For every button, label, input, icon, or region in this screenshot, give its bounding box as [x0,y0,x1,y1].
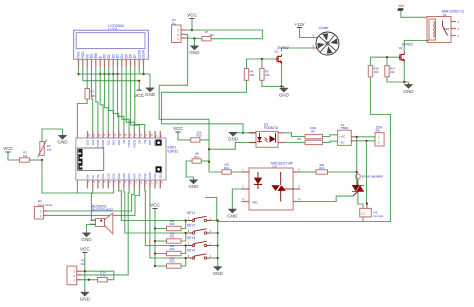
wire ESP32 to KEY3 [145,189,194,246]
wire U3 pin2 to ground [232,189,241,209]
junction triac MT2 [356,171,358,173]
wire LCD pin drop [143,67,145,75]
svg-text:Q1: Q1 [275,50,279,54]
svg-text:3: 3 [93,181,96,183]
svg-text:22k: 22k [390,70,395,74]
wire Q2 source [403,62,405,82]
svg-text:14: 14 [150,181,153,184]
svg-text:+ AC: + AC [339,135,345,139]
ESP32 bottom pin SD2 [159,180,161,189]
wire resistor to key node [181,246,186,254]
wire key to ground rail [211,220,218,222]
ESP32 mounting pad bottom [156,166,162,172]
ESP32 bottom pin D25 [123,180,125,189]
svg-text:2: 2 [88,181,91,183]
svg-text:4: 4 [298,197,300,201]
wire R16 top [370,57,372,65]
LCD pin 10 D3 [117,59,119,66]
resistor R16 100 [368,66,372,77]
wire LCD E to ESP32 [100,74,103,131]
wire route to ESP32 area [205,198,217,222]
wire LCD pin drop [138,67,140,75]
push button KEY1 [187,211,212,222]
opto-triac U3 MOC3021TVM body [249,168,293,210]
resistor R5 22k [260,69,264,81]
H2 pin 1 [43,214,47,216]
ESP32 bottom pin D13 [154,180,156,189]
svg-text:10: 10 [130,181,133,184]
svg-text:R10: R10 [196,134,202,138]
junction Q1 source [280,85,282,87]
wire opto pin1 to ground [233,132,257,134]
ESP32 top pin D4 [139,131,141,138]
resistor R12 220 [222,170,231,174]
svg-text:D27: D27 [132,173,136,179]
wire R11 to bus [201,160,209,162]
resistor R17 22k [385,66,389,77]
wire LCD pin drop [108,67,110,75]
svg-text:5: 5 [104,181,107,183]
ESP32 top pin TXD2 [128,131,130,138]
svg-text:GND: GND [80,297,91,302]
ESP32 top pin D5 [123,131,125,138]
svg-text:1: 1 [210,241,212,245]
svg-text:10k: 10k [209,33,214,37]
ground bottom [80,292,91,301]
svg-text:2: 2 [312,44,314,48]
ESP32 bottom pin D32 [113,180,115,189]
ESP32 bottom pin D14 [139,180,141,189]
ESP32 top pin D19 [113,131,115,138]
svg-text:Q2: Q2 [399,46,403,50]
junction key node [185,257,187,259]
wire P4 data to divider bus [159,34,209,119]
wire R10 to bus [200,139,209,141]
svg-text:1 2: 1 2 [361,212,365,216]
push button KEY4 [187,249,212,260]
fan pin 1 [312,37,318,39]
junction P2 VCC [84,270,86,272]
wire thermistor to ESP32 VP [42,160,114,193]
svg-text:TB6D: TB6D [341,126,350,130]
svg-text:100: 100 [250,73,255,77]
wire R9 to bridge [323,141,338,142]
wire resistor to key node [181,258,186,266]
svg-text:10k: 10k [47,148,52,152]
wire to ground P4 [194,38,196,46]
resistor R13 300 [316,170,328,174]
resistor R21 10k [167,239,182,243]
junction lower [208,161,210,163]
wire P2 pin1 [82,279,98,281]
svg-text:8: 8 [161,135,164,137]
wire VCC to key resistor 2 [155,240,167,242]
ESP32 bottom pin EN [87,180,89,189]
push button KEY2 [187,224,212,235]
ESP32 top pin RXD0 [102,131,104,138]
wire U2 pin4 to R8 [285,133,305,137]
wire drive net long route [217,77,391,222]
junction P2 data [88,279,90,281]
wire 12v to relay coil [401,11,427,17]
VCC flag under LCD [134,89,144,99]
svg-text:KEY3: KEY3 [187,236,195,240]
junction ground rail [217,232,219,234]
ESP32 top pin D23 [87,131,89,138]
svg-text:GND: GND [145,92,156,97]
junction P4 gnd [193,37,195,39]
svg-text:2N7002: 2N7002 [278,46,289,50]
wire LCD pin drop [82,67,84,75]
D1 pin + [351,136,356,138]
wire key to ground rail [211,245,218,247]
wire pullup loop P4 [192,30,263,39]
junction triac feed [356,136,358,138]
svg-text:21: 21 [93,133,96,136]
wire LCD D6 to ESP32 [131,74,140,131]
svg-text:D35: D35 [106,173,110,179]
wire to H3 top [366,141,368,204]
svg-text:15: 15 [124,133,127,136]
ESP32 mounting pad top [156,140,162,146]
wire R13 to triac [328,171,357,173]
wire LCD D0 to ESP32 [105,74,109,131]
svg-text:D14: D14 [138,173,142,179]
ground keys [213,267,224,276]
U3 pin 6 [293,171,300,173]
ground fan driver [279,88,290,97]
wire buzzer to ground [87,224,96,233]
wire LCD pin drop [117,67,119,75]
wire VCC to R10 [178,132,191,140]
svg-text:D34: D34 [101,173,105,179]
junction on LCD bus [77,73,79,75]
svg-text:GND: GND [153,140,157,146]
wire ESP32 to KEY4 [150,189,193,259]
junction on LCD bus [108,73,110,75]
svg-text:15: 15 [156,181,159,184]
ESP32 top pin GND [154,131,156,138]
junction key node [185,219,187,221]
wire R4 top [246,59,248,69]
LCD pin 16 LEDK [143,59,145,66]
svg-text:17: 17 [114,133,117,136]
connector P2 [67,266,77,285]
junction P4 VCC [191,29,193,31]
P4 pin 3 [181,29,186,31]
wire U3 pin6 to R13 [301,171,317,173]
wire bridge to P3 pin1 [356,136,375,138]
svg-text:R23: R23 [169,260,175,264]
U2 pin 3 [278,142,285,144]
svg-text:D23: D23 [86,139,90,145]
LCD pin 1 VSS [78,59,80,66]
wire P4 pin3 [186,29,192,31]
wire R17 top [386,57,388,65]
wire R5 to ground rail [262,80,284,86]
ESP32 top pin D22 [92,131,94,138]
junction key node [185,232,187,234]
svg-text:18: 18 [109,133,112,136]
U3 pin 5 [293,188,300,190]
wire LCD bus row 1 [77,73,150,75]
wire VCC rail keys [154,209,156,267]
svg-text:D12: D12 [143,173,147,179]
wire to GND flag [149,74,151,88]
ESP32 bottom pin D26 [128,180,130,189]
transistor Q2 2N7002 [399,52,405,62]
svg-text:2: 2 [242,185,244,189]
svg-text:D4: D4 [120,54,124,58]
svg-text:16: 16 [119,133,122,136]
resistor R8 100k [305,134,322,138]
wire ground stub [283,86,285,88]
wire key to ground rail [211,257,218,259]
svg-text:GND: GND [228,137,239,142]
svg-text:D21: D21 [106,139,110,145]
svg-text:2: 2 [188,216,190,220]
VCC flag above P4 [187,13,197,19]
svg-text:- AC: - AC [339,140,344,144]
junction Q2 source [403,81,405,83]
svg-text:+12V: +12V [295,22,305,27]
svg-text:11: 11 [135,181,138,184]
resistor R3 100 [85,89,89,100]
svg-text:16: 16 [161,181,164,184]
svg-text:VCC: VCC [3,146,13,151]
wire LCD pin drop [78,67,80,75]
junction load feed [365,140,367,142]
svg-text:1: 1 [242,168,244,172]
svg-text:VIN: VIN [158,140,162,145]
wire to VCC flag [138,81,140,89]
LCD pin 9 D2 [112,59,114,66]
ground U3 [227,209,238,218]
junction on LCD bus [142,73,144,75]
svg-text:GND: GND [279,93,290,98]
svg-text:3: 3 [242,197,244,201]
wire LCD RS to ESP32 [92,74,93,131]
ESP32 top pin D2 [144,131,146,138]
svg-text:GND: GND [188,184,199,189]
wire key to ground rail [211,232,218,234]
resistor R10 10k [191,138,200,142]
wire VCC to R1 [8,152,20,160]
svg-text:D4: D4 [138,139,142,143]
ESP32 bottom pin D27 [133,180,135,189]
ground under P4 [189,46,200,55]
wire R2 top to ground [42,129,63,142]
LCD pin 5 RW [95,59,97,66]
svg-text:KEY4: KEY4 [187,249,195,253]
junction VCC rail [154,240,156,242]
svg-text:D26: D26 [127,173,131,179]
wire R17 to ground rail [387,77,409,82]
wire to triac MT2 [356,137,358,185]
wire fan to Q1 drain [282,48,312,52]
wire to opto U2 pin2 [209,143,256,150]
svg-text:12v: 12v [398,4,404,8]
wire LCD D3 to ESP32 [118,74,124,131]
ESP32 top pin D15 [149,131,151,138]
wire ESP32 to KEY2 [124,189,193,234]
svg-text:9: 9 [156,135,159,137]
wire VCC to P4 [191,19,193,31]
LCD pin 12 D5 [125,59,127,66]
junction gate Q2 [386,56,388,58]
ESP32 bottom pin D34 [102,180,104,189]
VCC flag mid [173,126,183,132]
svg-text:6: 6 [298,168,300,172]
junction ground rail [217,244,219,246]
svg-text:hen gio: hen gio [374,214,384,218]
LCD display LCD1 LCD2004 [74,24,149,59]
svg-text:KEY1: KEY1 [187,211,195,215]
wire bridge to P3 pin2 [356,140,375,142]
wire LCD pin drop [134,67,136,75]
wire H2 pin1 to ESP32 [47,189,140,216]
ground left [57,136,68,145]
svg-text:D5: D5 [122,139,126,143]
svg-text:VCC: VCC [80,247,90,252]
svg-text:GND: GND [213,271,224,276]
ground opto input [228,132,239,141]
svg-text:NC: NC [253,201,258,205]
wire LCD D5 to ESP32 [126,74,134,131]
svg-text:R3: R3 [90,90,94,94]
svg-text:D15: D15 [148,139,152,145]
svg-text:6: 6 [109,181,112,183]
module ESP1 ESP32 body [76,138,166,180]
connector P4 header [172,18,182,43]
svg-text:2: 2 [188,241,190,245]
relay contact NO [451,21,456,23]
resistor R4 100 [244,69,248,81]
ESP32 bottom pin D33 [118,180,120,189]
wire LCD RW to ESP32 [96,74,98,131]
svg-text:D2: D2 [143,139,147,143]
svg-text:GND: GND [403,89,414,94]
svg-text:D33: D33 [117,173,121,179]
svg-text:2: 2 [188,229,190,233]
ground buzzer [81,233,92,242]
svg-text:VN: VN [96,175,100,179]
svg-text:2: 2 [188,254,190,258]
junction H3 pin [366,202,368,204]
svg-text:D32: D32 [112,173,116,179]
wire U2 pin3 to R9 [285,141,305,143]
fan pin 2 [312,47,317,49]
resistor R7 10k [202,37,211,41]
U2 pin 2 [249,142,256,144]
junction VCC rail [154,265,156,267]
H2 pin 2 [43,210,47,212]
wire H3 to route [362,217,364,222]
LCD pin 14 D7 [134,59,136,66]
wire Q1 source [281,64,283,86]
svg-text:R22: R22 [169,247,175,251]
svg-text:BTA41-600BRG: BTA41-600BRG [362,174,384,178]
wire ground stub [408,82,410,85]
svg-text:D19: D19 [112,139,116,145]
ESP32 top pin D18 [118,131,120,138]
svg-text:D1: D1 [107,54,111,58]
wire to R3 [86,74,88,89]
P4 pin 2 [181,33,186,35]
svg-text:GND: GND [227,213,238,218]
svg-text:5: 5 [298,185,300,189]
relay contact NC [451,35,456,37]
svg-text:4: 4 [98,181,101,183]
VCC flag bottom [80,247,90,253]
svg-text:13: 13 [135,133,138,136]
svg-text:D13: D13 [153,173,157,179]
wire R5 top [261,59,263,69]
svg-text:13: 13 [145,181,148,184]
wire ground drop [62,129,64,136]
svg-text:D22: D22 [91,139,95,145]
svg-text:5: 5 [458,34,460,38]
resistor R23 10k [167,264,182,268]
svg-text:VCC: VCC [187,13,197,18]
svg-text:GND: GND [57,140,68,145]
svg-text:VCC: VCC [134,93,144,98]
LCD pin 3 V0 [86,59,88,66]
svg-text:1: 1 [312,33,314,37]
LCD pin 13 D6 [130,59,132,66]
wire VCC to key resistor 4 [155,265,167,267]
ESP32 top pin TXD0 [97,131,99,138]
triac Q3 BTA41-600BRG [352,174,364,196]
ESP32 top pin RXD2 [133,131,135,138]
wire resistor to key node [181,233,186,241]
svg-text:22k: 22k [265,73,270,77]
ESP32 bottom pin VN [97,180,99,189]
ground mid [188,180,199,189]
LCD pin 15 LEDA [138,59,140,66]
svg-text:RW: RW [94,53,98,58]
wire VCC to key resistor 1 [155,228,167,230]
svg-text:BUZZER-9032: BUZZER-9032 [92,208,113,212]
svg-text:3: 3 [458,27,460,31]
wire LCD pin drop [130,67,132,75]
wire LCD D4 to ESP32 [122,74,129,131]
wire gate Q2 [371,56,399,58]
P4 pin 1 [181,37,186,39]
wire LCD pin drop [104,67,106,75]
svg-text:VDD: VDD [81,51,85,58]
thermistor R2 10k [38,140,47,158]
svg-text:4: 4 [458,20,460,24]
svg-text:D7: D7 [133,54,137,58]
svg-text:EN: EN [86,175,90,179]
resistor R1 10k [20,158,30,162]
U2 pin 1 [249,132,256,134]
svg-text:RXD2: RXD2 [132,139,136,147]
svg-text:7: 7 [114,181,117,183]
wire pullup loop P2 [85,271,114,280]
wire LCD pin drop [86,67,88,75]
svg-text:LEDK: LEDK [142,49,146,58]
wire P4 pin1 to R7 [186,37,202,40]
ESP32 bottom pin D12 [144,180,146,189]
wire P2 pin3 to VCC [82,270,85,272]
svg-text:RXD0: RXD0 [101,139,105,147]
svg-text:VCC: VCC [150,203,160,208]
wire VDD drop [82,74,84,81]
ESP32 bottom pin D35 [107,180,109,189]
wire VCC to ground bottom [84,253,86,293]
